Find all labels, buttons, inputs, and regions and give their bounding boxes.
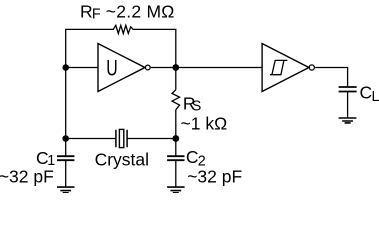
svg-text:R: R [80, 2, 93, 22]
svg-text:Crystal: Crystal [95, 150, 149, 170]
svg-text:F: F [92, 7, 101, 23]
svg-text:~32 pF: ~32 pF [187, 166, 242, 186]
svg-text:U: U [106, 57, 117, 81]
svg-text:~1 kΩ: ~1 kΩ [181, 113, 228, 133]
svg-text:C: C [360, 83, 373, 103]
svg-text:S: S [192, 99, 202, 115]
svg-text:~32 pF: ~32 pF [0, 167, 54, 187]
svg-text:L: L [372, 89, 379, 105]
svg-text:~2.2 MΩ: ~2.2 MΩ [106, 1, 175, 21]
svg-text:C: C [186, 147, 199, 167]
